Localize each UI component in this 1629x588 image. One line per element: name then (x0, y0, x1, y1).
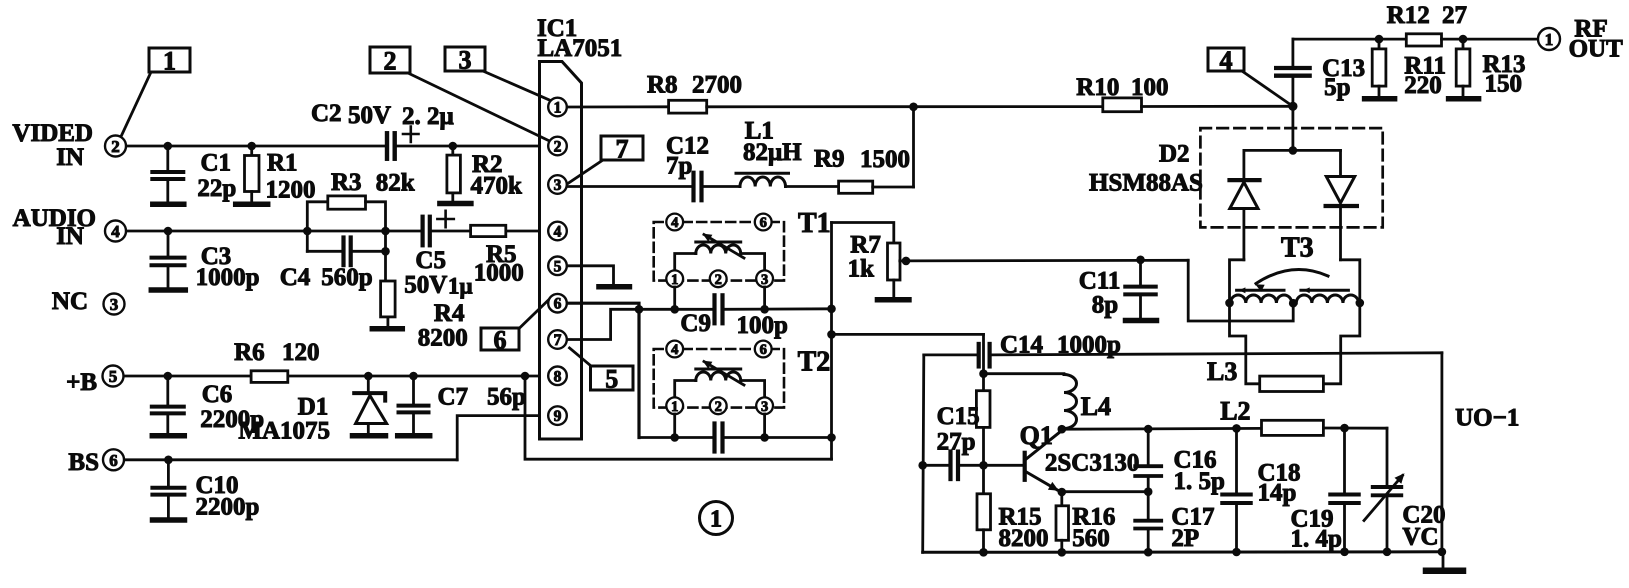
svg-text:4: 4 (111, 222, 120, 241)
svg-text:3: 3 (761, 399, 768, 415)
svg-text:8p: 8p (1092, 292, 1118, 319)
svg-text:1500: 1500 (860, 146, 910, 173)
svg-text:9: 9 (554, 408, 562, 425)
svg-text:7p: 7p (666, 153, 692, 180)
svg-text:R7: R7 (850, 232, 881, 259)
svg-text:82μH: 82μH (743, 139, 802, 166)
svg-text:3: 3 (110, 295, 119, 314)
svg-text:C15: C15 (937, 403, 980, 430)
svg-text:1: 1 (554, 100, 562, 117)
svg-text:VIDED: VIDED (12, 120, 93, 147)
svg-text:C5: C5 (415, 247, 446, 274)
svg-text:1: 1 (163, 46, 176, 75)
svg-text:C11: C11 (1079, 268, 1121, 295)
svg-text:+B: +B (66, 369, 97, 396)
svg-text:6: 6 (494, 325, 507, 354)
svg-text:1000p: 1000p (1057, 332, 1121, 359)
svg-text:C9: C9 (680, 310, 711, 337)
svg-text:UO−1: UO−1 (1455, 405, 1519, 432)
svg-text:C14: C14 (1000, 332, 1044, 359)
svg-text:L4: L4 (1081, 392, 1111, 421)
svg-text:470k: 470k (471, 173, 523, 200)
svg-text:T1: T1 (798, 208, 831, 239)
svg-text:2. 2μ: 2. 2μ (402, 103, 454, 130)
svg-text:7: 7 (554, 332, 562, 349)
svg-text:1200: 1200 (266, 177, 316, 204)
svg-text:C1: C1 (201, 150, 232, 177)
svg-text:6: 6 (109, 451, 118, 470)
svg-text:1: 1 (671, 399, 678, 415)
svg-text:82k: 82k (376, 170, 415, 197)
svg-text:8: 8 (554, 368, 562, 385)
svg-text:2: 2 (384, 46, 397, 75)
svg-text:4: 4 (671, 215, 678, 231)
svg-text:Q1: Q1 (1020, 421, 1053, 450)
svg-text:R10: R10 (1076, 74, 1119, 101)
svg-text:LA7051: LA7051 (538, 35, 623, 62)
svg-text:3: 3 (459, 45, 472, 74)
svg-text:BS: BS (68, 449, 99, 476)
svg-text:C6: C6 (202, 381, 233, 408)
svg-text:4: 4 (671, 342, 678, 358)
svg-text:7: 7 (616, 134, 629, 163)
svg-text:D1: D1 (298, 394, 329, 421)
svg-text:8200: 8200 (999, 525, 1049, 552)
svg-text:6: 6 (554, 296, 562, 313)
svg-text:1k: 1k (848, 256, 875, 283)
svg-text:NC: NC (52, 288, 88, 315)
svg-text:27: 27 (1442, 2, 1467, 29)
svg-text:D2: D2 (1159, 141, 1190, 168)
svg-text:27p: 27p (937, 429, 976, 456)
svg-text:100p: 100p (737, 312, 788, 339)
svg-text:R1: R1 (267, 150, 298, 177)
svg-text:22p: 22p (197, 175, 236, 202)
svg-text:2: 2 (111, 137, 120, 156)
svg-text:5: 5 (605, 364, 618, 393)
svg-text:3: 3 (761, 272, 768, 288)
svg-text:VC: VC (1402, 524, 1438, 551)
svg-text:IN: IN (56, 144, 84, 171)
svg-text:L2: L2 (1220, 397, 1250, 426)
svg-text:C2: C2 (311, 100, 342, 127)
svg-text:14p: 14p (1258, 480, 1297, 507)
svg-text:2: 2 (715, 272, 722, 288)
svg-text:R8: R8 (647, 72, 678, 99)
svg-text:5: 5 (109, 367, 118, 386)
svg-text:MA1075: MA1075 (238, 418, 330, 445)
svg-text:1: 1 (671, 272, 678, 288)
svg-text:2700: 2700 (692, 72, 742, 99)
svg-text:100: 100 (1131, 74, 1169, 101)
svg-text:L3: L3 (1207, 357, 1237, 386)
svg-text:4: 4 (1220, 46, 1233, 75)
svg-text:2200p: 2200p (196, 494, 260, 521)
svg-text:R3: R3 (331, 169, 362, 196)
svg-text:C7: C7 (438, 384, 469, 411)
svg-text:1000: 1000 (474, 260, 524, 287)
svg-text:2SC3130: 2SC3130 (1045, 450, 1139, 477)
svg-text:R4: R4 (434, 300, 465, 327)
svg-text:5: 5 (554, 258, 562, 275)
svg-text:1μ: 1μ (448, 274, 473, 299)
svg-text:1: 1 (710, 507, 722, 533)
svg-text:T2: T2 (798, 347, 831, 378)
svg-text:R12: R12 (1387, 2, 1430, 29)
svg-text:560: 560 (1072, 525, 1110, 552)
svg-text:T3: T3 (1281, 233, 1314, 264)
svg-text:150: 150 (1485, 71, 1523, 98)
svg-text:2: 2 (554, 139, 562, 156)
svg-text:1000p: 1000p (196, 264, 260, 291)
svg-text:1. 4p: 1. 4p (1291, 526, 1342, 553)
svg-text:56p: 56p (487, 384, 526, 411)
svg-text:560p: 560p (321, 264, 372, 291)
svg-text:C4: C4 (280, 264, 311, 291)
svg-text:6: 6 (760, 215, 767, 231)
svg-text:6: 6 (760, 342, 767, 358)
svg-text:R9: R9 (814, 146, 845, 173)
svg-text:1: 1 (1545, 30, 1554, 49)
svg-text:HSM88AS: HSM88AS (1089, 170, 1203, 197)
svg-text:8200: 8200 (418, 325, 468, 352)
svg-text:220: 220 (1404, 72, 1442, 99)
svg-text:IN: IN (56, 223, 84, 250)
svg-text:2: 2 (715, 399, 722, 415)
svg-text:2P: 2P (1171, 525, 1199, 552)
svg-text:OUT: OUT (1569, 36, 1624, 63)
svg-text:3: 3 (554, 177, 562, 194)
svg-text:5p: 5p (1324, 74, 1350, 101)
svg-text:120: 120 (282, 339, 320, 366)
svg-text:50V: 50V (404, 272, 447, 299)
svg-text:4: 4 (554, 224, 562, 241)
svg-text:50V: 50V (348, 102, 391, 129)
svg-text:R6: R6 (234, 339, 265, 366)
svg-text:1. 5p: 1. 5p (1174, 468, 1225, 495)
